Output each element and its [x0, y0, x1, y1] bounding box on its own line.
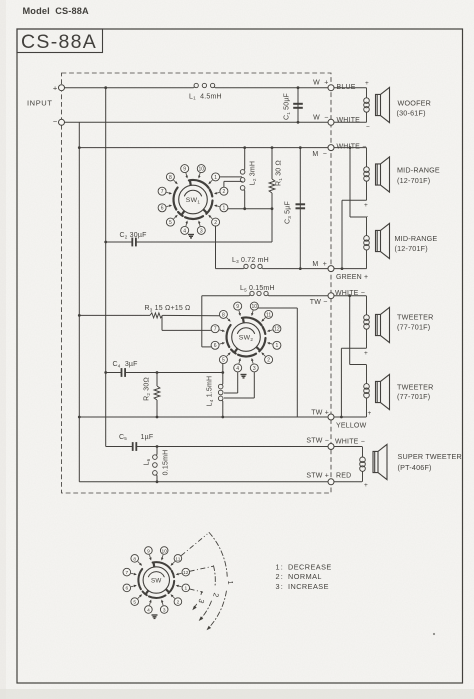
- svg-text:WOOFER: WOOFER: [398, 98, 432, 107]
- dashed crossover enclosure: [62, 73, 332, 493]
- svg-text:C2 30µF: C2 30µF: [120, 232, 147, 239]
- svg-text:(77-701F): (77-701F): [397, 323, 430, 332]
- svg-text:INPUT: INPUT: [27, 99, 53, 108]
- svg-text:C1 50µF: C1 50µF: [284, 93, 291, 120]
- mid-range 1 return: [342, 199, 367, 201]
- svg-text:SW: SW: [151, 578, 162, 585]
- wire BLUE to woofer: [334, 87, 367, 89]
- svg-text:GREEN +: GREEN +: [336, 274, 368, 281]
- svg-text:+: +: [53, 83, 58, 92]
- terminal TW-/WHITE: [328, 293, 334, 299]
- tweeter 2 voice coil: [366, 365, 368, 384]
- svg-text:6: 6: [125, 586, 128, 592]
- svg-text:CS-88A: CS-88A: [21, 31, 97, 53]
- svg-text:L2 3mH: L2 3mH: [250, 161, 257, 185]
- svg-text:M −: M −: [312, 151, 327, 158]
- svg-text:C3 5µF: C3 5µF: [285, 201, 292, 224]
- svg-text:TW +: TW +: [311, 409, 329, 416]
- terminal W-/WHITE: [328, 119, 334, 125]
- svg-text:(PT-406F): (PT-406F): [398, 463, 432, 472]
- svg-text:1µF: 1µF: [141, 434, 154, 441]
- svg-text:4: 4: [236, 366, 239, 372]
- capacitor C5 1uF: [106, 446, 133, 448]
- svg-text:7: 7: [161, 189, 164, 195]
- svg-text:2: 2: [214, 220, 217, 226]
- svg-text:+: +: [364, 482, 368, 489]
- super tweeter cone: [373, 444, 387, 479]
- capacitor C3 5uF: [299, 148, 301, 269]
- svg-text:W +: W +: [313, 79, 328, 86]
- capacitor C4 3uF: [106, 372, 122, 374]
- svg-text:(77-701F): (77-701F): [397, 392, 430, 401]
- wire SW1-2(lower) down to M+ rail: [215, 226, 217, 269]
- svg-text:YELLOW: YELLOW: [336, 423, 367, 430]
- rotary switch SW legend: [143, 567, 169, 593]
- wire W+ (input + to BLUE): [62, 87, 194, 89]
- vertical bus from input -: [78, 122, 80, 482]
- svg-text:3: 3: [163, 607, 166, 613]
- svg-text:MID-RANGE: MID-RANGE: [397, 166, 440, 175]
- wire M+ with inductor L3: [216, 268, 244, 270]
- inductor L1 4.5mH: [193, 87, 196, 88]
- terminal M+/GREEN: [328, 266, 334, 272]
- mid-range 2 cone: [376, 223, 390, 258]
- svg-text:(12-701F): (12-701F): [395, 244, 428, 253]
- svg-text:WHITE −: WHITE −: [337, 143, 367, 150]
- ground below legend switch: [152, 615, 158, 618]
- tweeter 1 voice coil: [366, 296, 368, 315]
- svg-text:INCREASE: INCREASE: [288, 582, 329, 591]
- svg-text:RED: RED: [336, 473, 351, 480]
- svg-text:5: 5: [222, 358, 225, 364]
- woofer cone: [376, 87, 390, 122]
- input terminal -: [59, 119, 65, 125]
- svg-text:8: 8: [222, 312, 225, 318]
- svg-text:1: 1: [184, 586, 187, 592]
- wire SW1-2 to L2 tap (elbow): [223, 181, 225, 187]
- wire TW- branch down to tweeter 2: [349, 296, 351, 365]
- svg-text:1: 1: [276, 343, 279, 349]
- ground below SW1: [188, 235, 194, 238]
- svg-text:STW −: STW −: [306, 438, 329, 445]
- svg-text:1 :: 1 :: [276, 563, 284, 572]
- svg-text:(12-701F): (12-701F): [397, 176, 430, 185]
- legend position arc 1: [209, 533, 227, 577]
- resistor R2 30ohm: [156, 373, 158, 387]
- ground below SW2: [241, 375, 247, 378]
- svg-text:TW −: TW −: [310, 299, 328, 306]
- terminal STW-/WHITE: [328, 444, 334, 450]
- resistor R1 30ohm: [271, 148, 273, 179]
- svg-text:W −: W −: [313, 115, 328, 122]
- terminal TW+/YELLOW: [328, 414, 334, 420]
- terminal W+/BLUE: [328, 85, 334, 91]
- input terminal +: [59, 85, 65, 91]
- wire W- (input - to WHITE): [62, 121, 332, 123]
- inductor L2 3mH (tapped): [244, 148, 246, 170]
- R3 center tap to SW2-7: [161, 315, 163, 330]
- legend position arc 2: [214, 566, 216, 588]
- svg-text:R1 30 Ω: R1 30 Ω: [276, 160, 283, 186]
- svg-text:10: 10: [252, 304, 258, 310]
- wire TW+ rail: [79, 416, 366, 418]
- terminal STW+/RED: [328, 479, 334, 485]
- svg-text:TWEETER: TWEETER: [397, 382, 434, 391]
- svg-text:2: 2: [223, 189, 226, 195]
- svg-text:+: +: [365, 80, 369, 87]
- svg-text:1: 1: [226, 581, 235, 585]
- svg-text:12: 12: [183, 570, 189, 576]
- svg-text:3: 3: [200, 228, 203, 234]
- wire SW1-1 to L2 tap: [220, 176, 242, 178]
- scan artifacts: [433, 633, 435, 635]
- svg-text:6: 6: [214, 343, 217, 349]
- legend pointer lines: [181, 534, 207, 556]
- inductor L5 0.15mH: [249, 295, 252, 296]
- svg-text:−: −: [53, 117, 58, 126]
- mid-range 2 voice coil: [366, 217, 368, 236]
- svg-text:NORMAL: NORMAL: [288, 572, 322, 581]
- svg-text:10: 10: [199, 167, 205, 173]
- rotary switch SW1: [179, 185, 208, 214]
- title box CS-88A: [17, 29, 103, 53]
- inductor L6 0.15mH: [156, 447, 158, 455]
- capacitor C1 50uF: [297, 88, 299, 123]
- wire STW+ rail: [79, 481, 362, 483]
- tweeter 1 return: [341, 347, 366, 349]
- svg-text:9: 9: [236, 304, 239, 310]
- svg-text:12: 12: [274, 327, 280, 333]
- svg-text:(30-61F): (30-61F): [397, 108, 426, 117]
- super tweeter voice coil: [362, 447, 364, 457]
- wire TW- with inductor L5: [202, 295, 250, 297]
- svg-text:7: 7: [125, 570, 128, 576]
- svg-text:4: 4: [183, 228, 186, 234]
- woofer voice coil: [366, 88, 368, 98]
- legend position arc 3: [200, 591, 203, 594]
- svg-text:+: +: [368, 410, 372, 417]
- wire SW2-4 tap: [237, 372, 239, 393]
- svg-text:MID-RANGE: MID-RANGE: [395, 234, 438, 243]
- svg-text:−: −: [366, 124, 370, 131]
- svg-text:2: 2: [267, 358, 270, 364]
- svg-text:3 :: 3 :: [276, 582, 284, 591]
- svg-text:8: 8: [133, 556, 136, 562]
- svg-text:M +: M +: [312, 261, 327, 268]
- svg-text:Model CS-88A: Model CS-88A: [23, 6, 89, 16]
- svg-text:WHITE −: WHITE −: [335, 439, 365, 446]
- svg-text:3: 3: [253, 366, 256, 372]
- inductor L3 0.72mH: [243, 268, 246, 269]
- svg-text:4: 4: [147, 607, 150, 613]
- svg-text:DECREASE: DECREASE: [288, 563, 332, 572]
- svg-text:TWEETER: TWEETER: [397, 312, 434, 321]
- svg-text:8: 8: [169, 175, 172, 181]
- vertical bus from input +: [105, 88, 107, 447]
- svg-text:11: 11: [175, 556, 180, 562]
- svg-text:+: +: [364, 202, 368, 209]
- svg-text:R2 30Ω: R2 30Ω: [144, 377, 151, 401]
- rotary switch SW2: [232, 323, 261, 352]
- tweeter 2 cone: [376, 374, 390, 409]
- svg-text:SUPER TWEETER: SUPER TWEETER: [398, 452, 462, 461]
- svg-text:0.15mH: 0.15mH: [163, 450, 170, 476]
- wire SW2-5 down / inductor L4 1.5mH (tapped): [222, 364, 224, 384]
- svg-text:5: 5: [169, 220, 172, 226]
- svg-text:5: 5: [133, 599, 136, 605]
- mid-range 1 cone: [376, 157, 390, 192]
- svg-text:7: 7: [214, 327, 217, 333]
- svg-text:2: 2: [177, 599, 180, 605]
- wire M-/WHITE- (third rail): [79, 147, 331, 149]
- svg-text:C4 3µF: C4 3µF: [113, 361, 138, 368]
- svg-text:2 :: 2 :: [276, 572, 284, 581]
- wire M- branch down to mid-range 2: [349, 148, 351, 217]
- svg-text:6: 6: [161, 206, 164, 212]
- mid-range 1 voice coil: [366, 148, 368, 167]
- svg-text:9: 9: [183, 167, 186, 173]
- wire SW2-10 right then down to TW+: [258, 307, 298, 309]
- wire SW1-1(right) to L2/R1 bottom: [228, 208, 272, 210]
- resistor R3 15+15 ohm: [79, 314, 150, 316]
- wire from L5 down to SW2 area: [201, 296, 203, 347]
- svg-text:11: 11: [266, 312, 271, 318]
- svg-text:9: 9: [147, 548, 150, 554]
- svg-text:10: 10: [162, 548, 168, 554]
- tweeter 1 cone: [376, 307, 390, 342]
- wire SW2-3 tap: [253, 372, 255, 398]
- capacitor C2 30uF: [106, 241, 133, 243]
- svg-text:1: 1: [223, 206, 226, 212]
- svg-text:+: +: [364, 350, 368, 357]
- svg-text:STW +: STW +: [306, 473, 329, 480]
- svg-text:1: 1: [214, 175, 217, 181]
- wire to SW2-6: [202, 346, 211, 348]
- terminal WHITE- (M-): [328, 145, 334, 151]
